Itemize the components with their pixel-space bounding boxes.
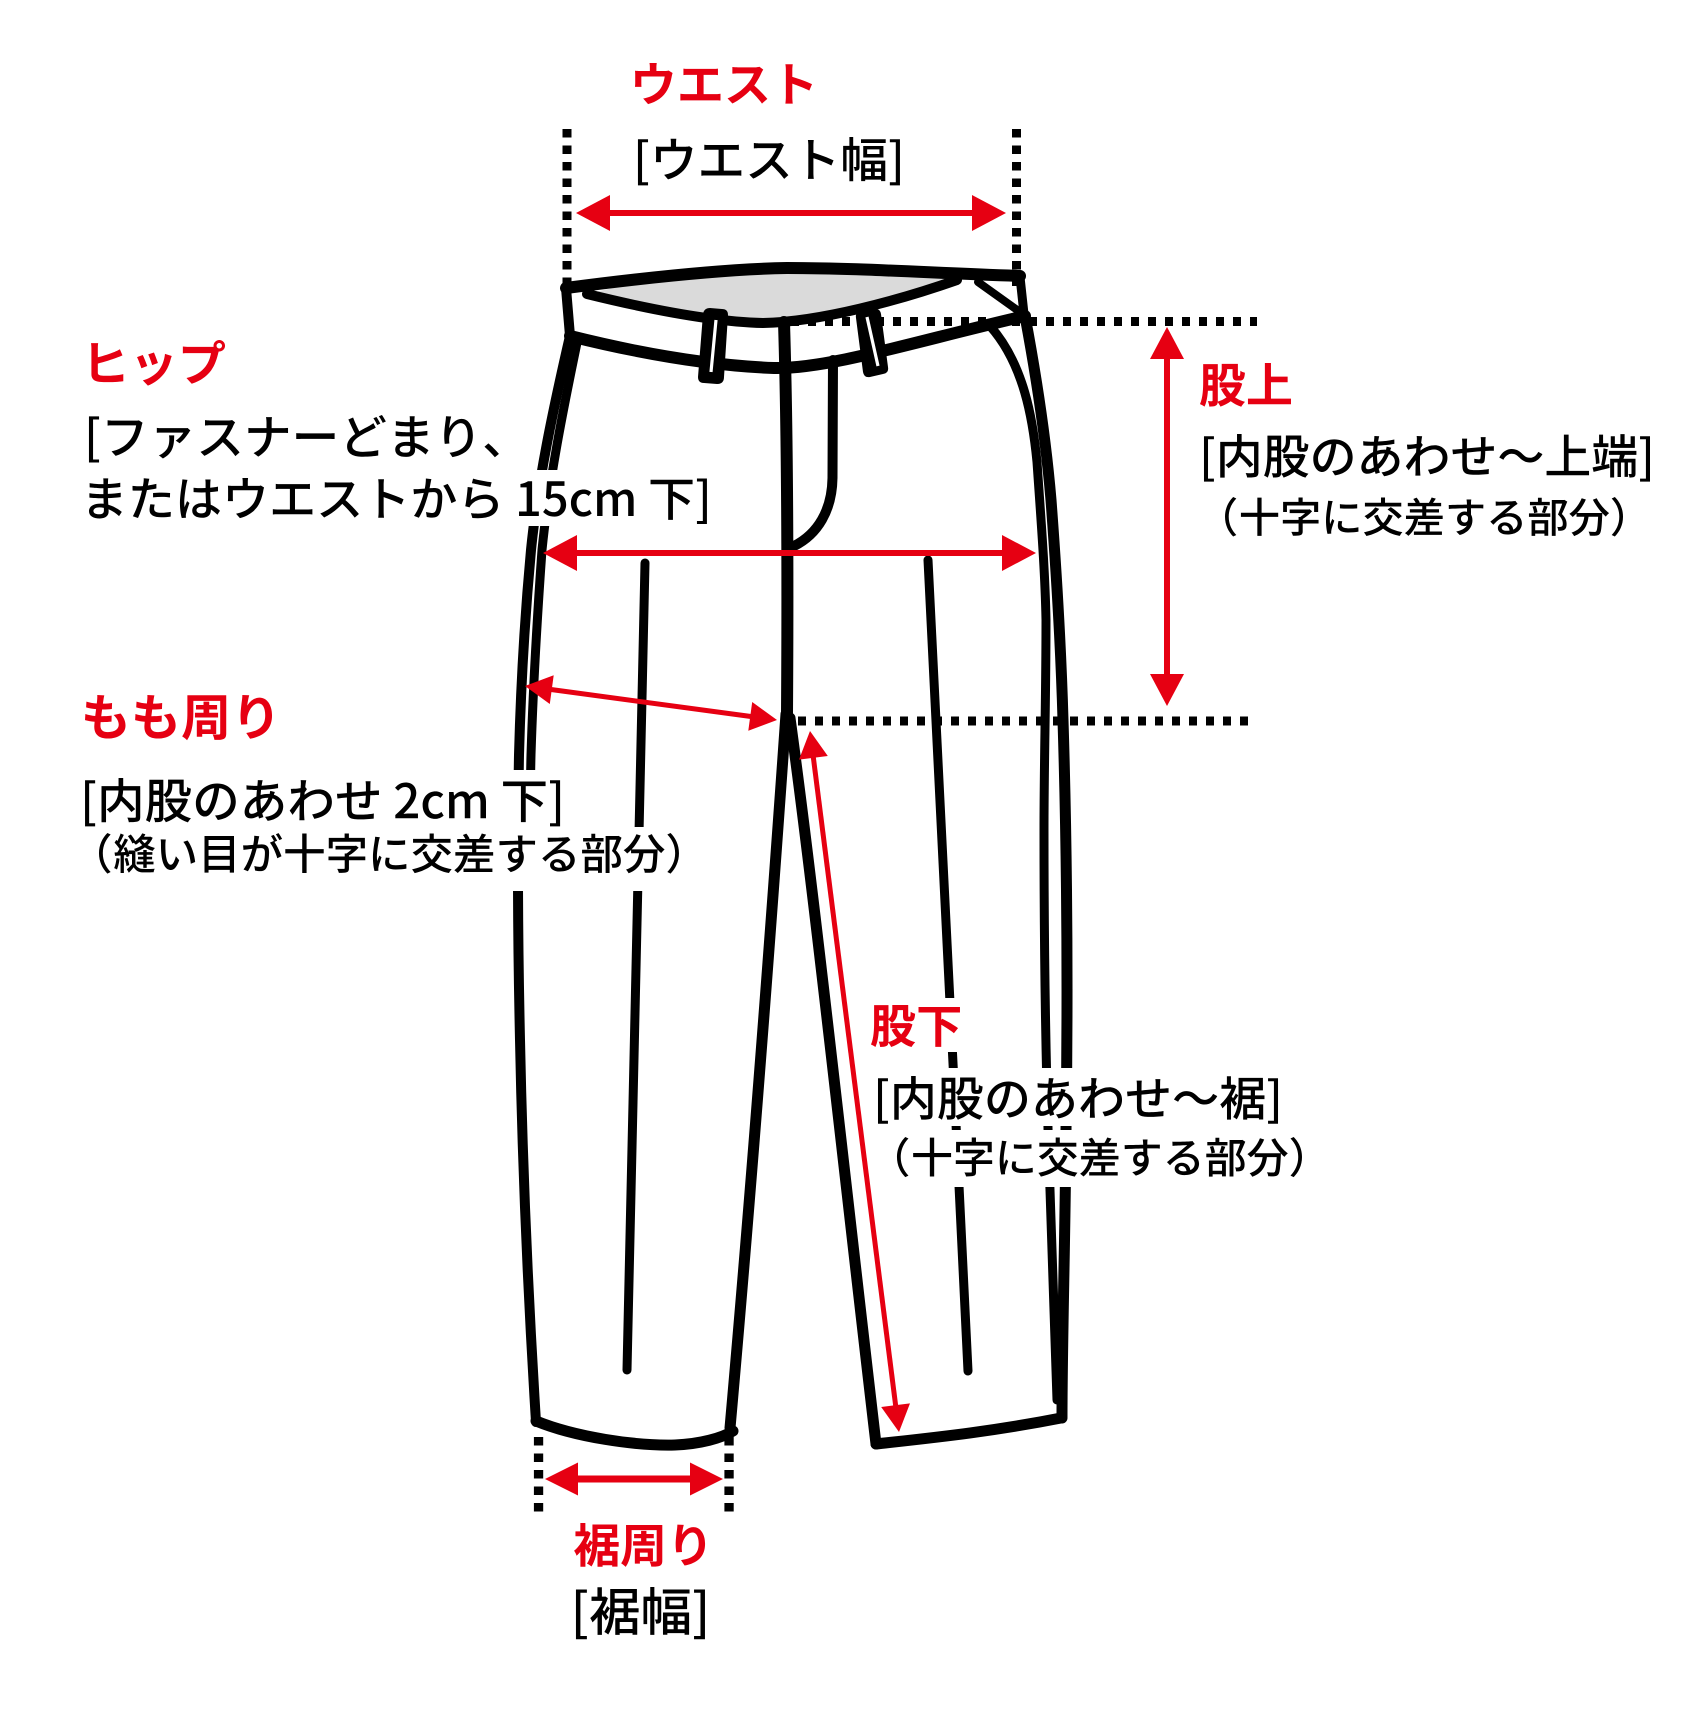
label [ファスナーどまり、 [89, 415, 499, 463]
label ウエスト [635, 63, 812, 104]
belt loop left slit [711, 320, 716, 372]
belt loop right slit [867, 317, 878, 366]
left leg hem [536, 1421, 733, 1445]
label 股下 [871, 1005, 960, 1047]
waistband inner curve [587, 280, 957, 323]
right leg inseam [790, 718, 876, 1444]
thigh arrow [546, 689, 755, 717]
waistband right fold [978, 282, 1020, 312]
white backdrop for label [内股のあわせ 2cm 下] [80, 770, 568, 828]
left leg inseam [730, 714, 786, 1428]
belt loop right [856, 309, 888, 377]
left companion seam [530, 338, 578, 868]
white backdrop for label （縫い目が十字に交差する部分） [94, 827, 687, 891]
label 裾周り [574, 1523, 705, 1567]
left outer edge [518, 336, 570, 1422]
belt loop left [698, 308, 728, 384]
label （十字に交差する部分） [1225, 497, 1623, 536]
fly J stitch [794, 360, 833, 546]
label またはウエストから 15cm 下] [89, 478, 707, 524]
hip arrow [570, 550, 1009, 556]
waistband fill [566, 268, 1025, 368]
label [裾幅] [576, 1587, 705, 1639]
white backdrop for label またはウエストから 15cm 下] [84, 470, 715, 526]
waistband inner gray [587, 268, 957, 323]
label ヒップ [91, 340, 225, 386]
label [内股のあわせ～裾] [878, 1076, 1278, 1124]
waistband bottom edge [570, 316, 1025, 368]
label [ウエスト幅] [638, 137, 900, 185]
waistband left edge [566, 288, 570, 336]
waist width arrow [603, 210, 979, 216]
dotted vertical left (hem) [534, 1437, 543, 1512]
label もも周り [85, 695, 272, 740]
right leg hem [876, 1418, 1061, 1444]
dotted line crotch level [798, 717, 1248, 726]
dotted vertical left (waist width) [563, 129, 572, 286]
right crease [928, 560, 968, 1371]
label 股上 [1200, 363, 1291, 407]
waistband top edge [566, 268, 1020, 288]
label （十字に交差する部分） [897, 1137, 1302, 1177]
dotted vertical right (waist width) [1012, 129, 1021, 286]
inseam arrow [813, 752, 897, 1410]
left crease [627, 563, 645, 1370]
dotted vertical right (hem) [724, 1437, 733, 1512]
rise arrow [1164, 353, 1170, 681]
fly center seam [784, 322, 787, 714]
hem width arrow [571, 1476, 696, 1483]
right companion seam [990, 326, 1057, 1400]
white backdrop for label 股下 [865, 998, 967, 1052]
white backdrop for label （十字に交差する部分） [891, 1130, 1310, 1187]
label （縫い目が十字に交差する部分） [99, 833, 679, 874]
label [内股のあわせ 2cm 下] [85, 778, 560, 826]
label [内股のあわせ～上端] [1204, 434, 1650, 482]
right outer edge [1025, 316, 1067, 1418]
white backdrop for label [内股のあわせ～裾] [872, 1068, 1286, 1126]
dotted line waist level [791, 317, 1257, 326]
waistband right edge [1020, 277, 1024, 314]
